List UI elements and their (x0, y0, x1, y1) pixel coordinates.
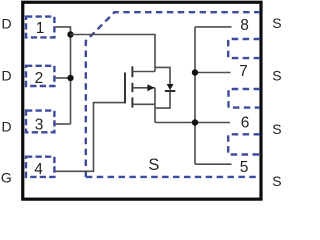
pin 2 pad (dashed) (26, 66, 54, 86)
lead-frame notch between pins 7 and 6 (dashed) (229, 89, 261, 108)
pin 1 pad (dashed) (26, 17, 54, 38)
source pad outline: left edge, chamfer, top edge (dashed) (86, 12, 260, 177)
wire drain to body diode anode (155, 67, 170, 84)
MOSFET body arrow (points right) (147, 84, 154, 91)
junction drain bus / drain feed (67, 31, 73, 37)
MOSFET Q1 body contact bar (131, 83, 133, 92)
pin 3 pad (dashed) (26, 111, 54, 133)
wire pin 4 (gate) to MOSFET gate (56, 103, 126, 172)
body diode D1 triangle (cathode down) (167, 84, 174, 90)
junction right bus / pin 6 (192, 119, 198, 125)
wire drain bus vertical (70, 35, 72, 125)
MOSFET Q1 gate bar (124, 73, 126, 104)
svg-text:D: D (2, 16, 12, 32)
MOSFET Q1 drain contact bar (131, 66, 133, 77)
svg-text:4: 4 (34, 161, 43, 178)
package outline frame (23, 2, 261, 199)
wire source vertical (154, 88, 156, 123)
svg-text:D: D (2, 68, 12, 84)
svg-text:G: G (1, 170, 12, 186)
svg-text:6: 6 (241, 115, 250, 132)
wire pin 1 to drain bus (56, 27, 71, 35)
svg-text:5: 5 (240, 159, 249, 176)
svg-text:3: 3 (35, 116, 44, 133)
wire source to right bus (pin 6 row) (155, 122, 195, 124)
wire MOSFET source bar to source vertical (132, 103, 155, 105)
wire pin 2 to drain bus (56, 77, 71, 79)
svg-text:2: 2 (35, 70, 44, 87)
wire diode cathode to source (155, 91, 170, 108)
wire pin 3 to drain bus (56, 123, 71, 125)
lead-frame notch between pins 8 and 7 (dashed) (228, 39, 260, 58)
svg-text:7: 7 (239, 63, 248, 80)
svg-text:1: 1 (36, 20, 45, 37)
junction right bus / pin 7 (192, 69, 198, 75)
svg-text:S: S (272, 68, 281, 84)
lead-frame notch between pins 6 and 5 (dashed) (228, 134, 260, 154)
svg-text:S: S (272, 121, 281, 137)
wire source right bus vertical (194, 27, 196, 164)
wire MOSFET body to source (132, 87, 155, 89)
MOSFET Q1 source contact bar (131, 97, 133, 107)
wire MOSFET drain bar to drain feed (132, 71, 155, 73)
source pad outline bottom edge (dashed) (86, 176, 260, 178)
wire to pin 6 (195, 122, 230, 124)
junction drain bus / pin 2 (67, 75, 73, 81)
wire to pin 7 (195, 72, 231, 74)
svg-text:D: D (2, 119, 12, 135)
wire to pin 8 (195, 26, 232, 28)
svg-text:S: S (272, 15, 281, 31)
svg-text:S: S (272, 173, 281, 189)
wire drain feed to MOSFET (71, 35, 156, 72)
wire to pin 5 (195, 163, 232, 165)
body diode D1 cathode bar (165, 90, 176, 92)
svg-text:8: 8 (240, 17, 249, 34)
svg-text:S: S (148, 156, 159, 174)
pin 4 pad (dashed) (26, 157, 54, 177)
